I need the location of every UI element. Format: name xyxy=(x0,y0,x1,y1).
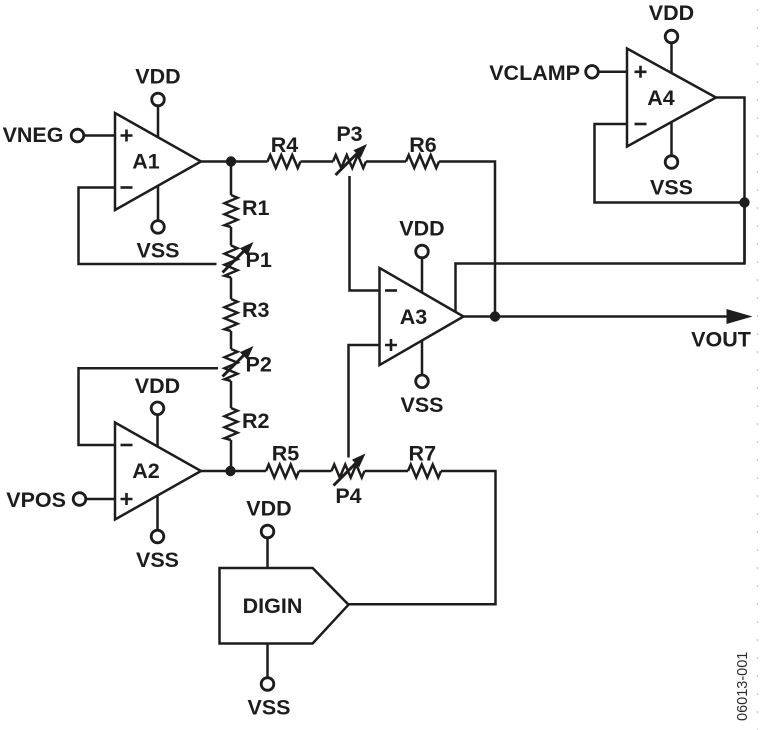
VDD terminal of A3 xyxy=(399,216,444,292)
resistor R2 xyxy=(225,408,270,440)
wire R7 down to DIGIN output xyxy=(349,471,496,604)
VSS terminal of A1 xyxy=(136,186,179,262)
svg-text:VDD: VDD xyxy=(135,374,180,398)
block DIGIN xyxy=(220,568,349,644)
resistor R1 xyxy=(225,195,270,227)
svg-text:P2: P2 xyxy=(246,352,272,376)
wire P3 to R6 xyxy=(366,160,406,163)
VDD terminal of DIGIN xyxy=(246,496,291,568)
svg-text:VSS: VSS xyxy=(247,696,290,720)
svg-text:P3: P3 xyxy=(336,122,362,146)
wire R5 to P4 xyxy=(299,470,332,473)
arrowhead VOUT xyxy=(727,309,753,324)
svg-text:A2: A2 xyxy=(132,459,160,483)
VDD terminal of A1 xyxy=(135,65,180,138)
junction node A3 output xyxy=(490,311,500,321)
VDD terminal of A2 xyxy=(135,374,180,447)
wire R1 to P1 xyxy=(230,227,233,246)
VDD terminal of A4 xyxy=(649,1,694,73)
wire R3 to P2 xyxy=(230,331,233,349)
svg-text:R5: R5 xyxy=(272,441,300,465)
wire A1 output to node xyxy=(201,160,231,163)
svg-text:R4: R4 xyxy=(271,133,299,157)
decorative dotted page edge xyxy=(757,9,759,730)
wire P4 to R7 xyxy=(365,470,409,473)
svg-text:VSS: VSS xyxy=(400,393,443,417)
VSS terminal of A3 xyxy=(400,341,443,418)
wire A4 output xyxy=(716,98,745,264)
svg-text:VPOS: VPOS xyxy=(6,488,66,512)
svg-text:R1: R1 xyxy=(242,196,270,220)
svg-text:A4: A4 xyxy=(647,86,675,110)
wire P4 wiper up to A3 non-inverting input xyxy=(349,345,380,458)
resistor chain wire from node xyxy=(230,162,233,196)
potentiometer P2 xyxy=(223,346,272,381)
wire P1 to R3 xyxy=(230,278,233,300)
VSS terminal of A4 xyxy=(650,122,693,199)
wire R2 to A2 output node xyxy=(230,440,233,471)
wire A4 feedback loop xyxy=(595,124,745,203)
svg-text:06013-001: 06013-001 xyxy=(735,652,751,721)
svg-text:P4: P4 xyxy=(335,484,361,508)
node VCLAMP input terminal xyxy=(489,61,598,85)
op-amp A3 xyxy=(380,268,464,365)
resistor R6 xyxy=(406,133,439,168)
wire R6 down to A3 output node xyxy=(439,162,495,317)
svg-text:VDD: VDD xyxy=(399,216,444,240)
wire R4 to P3 xyxy=(301,160,334,163)
wire P2 to R2 xyxy=(230,381,233,408)
wire A2 feedback loop xyxy=(79,368,219,445)
svg-text:A1: A1 xyxy=(132,150,160,174)
resistor R4 xyxy=(268,133,301,168)
wire A3 output to VOUT xyxy=(464,315,728,318)
potentiometer P3 xyxy=(333,122,367,175)
junction node A2 output xyxy=(225,466,235,476)
wire VNEG to A1 + xyxy=(84,134,115,137)
svg-text:VCLAMP: VCLAMP xyxy=(489,61,580,85)
svg-text:VSS: VSS xyxy=(650,175,693,199)
resistor R5 xyxy=(266,441,299,477)
op-amp A4 xyxy=(627,49,716,147)
junction node A4 feedback/output xyxy=(739,197,749,207)
potentiometer P1 xyxy=(223,242,272,278)
wire VPOS to A2 + xyxy=(86,498,115,501)
wire node to R4 xyxy=(231,160,268,163)
wire A4 clamp output to A3 xyxy=(456,203,745,312)
wire P3 wiper down to A3 inverting input xyxy=(350,176,380,291)
svg-text:R2: R2 xyxy=(242,409,270,433)
svg-text:VSS: VSS xyxy=(136,548,179,572)
svg-text:R6: R6 xyxy=(409,133,437,157)
VSS terminal of DIGIN xyxy=(247,644,290,720)
potentiometer P4 xyxy=(332,454,366,509)
svg-text:VDD: VDD xyxy=(649,1,694,25)
wire node to R5 xyxy=(231,470,266,473)
svg-text:VDD: VDD xyxy=(135,65,180,89)
svg-text:DIGIN: DIGIN xyxy=(243,594,303,618)
op-amp A1 xyxy=(115,113,201,210)
wire A2 output to node xyxy=(201,470,231,473)
op-amp A2 xyxy=(115,423,201,520)
VSS terminal of A2 xyxy=(136,496,179,573)
svg-text:VSS: VSS xyxy=(136,238,179,262)
svg-text:R7: R7 xyxy=(409,441,437,465)
wire A1 feedback loop xyxy=(79,188,217,265)
resistor R7 xyxy=(408,441,441,477)
resistor R3 xyxy=(225,298,270,331)
svg-text:VDD: VDD xyxy=(246,496,291,520)
svg-text:VOUT: VOUT xyxy=(691,327,751,351)
svg-text:A3: A3 xyxy=(400,305,428,329)
svg-text:R3: R3 xyxy=(242,298,270,322)
node VNEG input terminal xyxy=(3,123,84,147)
junction node A1 output xyxy=(226,156,236,166)
svg-text:VNEG: VNEG xyxy=(3,123,64,147)
wire VCLAMP to A4 + xyxy=(599,71,627,74)
svg-text:P1: P1 xyxy=(246,248,272,272)
node VPOS input terminal xyxy=(6,488,86,512)
